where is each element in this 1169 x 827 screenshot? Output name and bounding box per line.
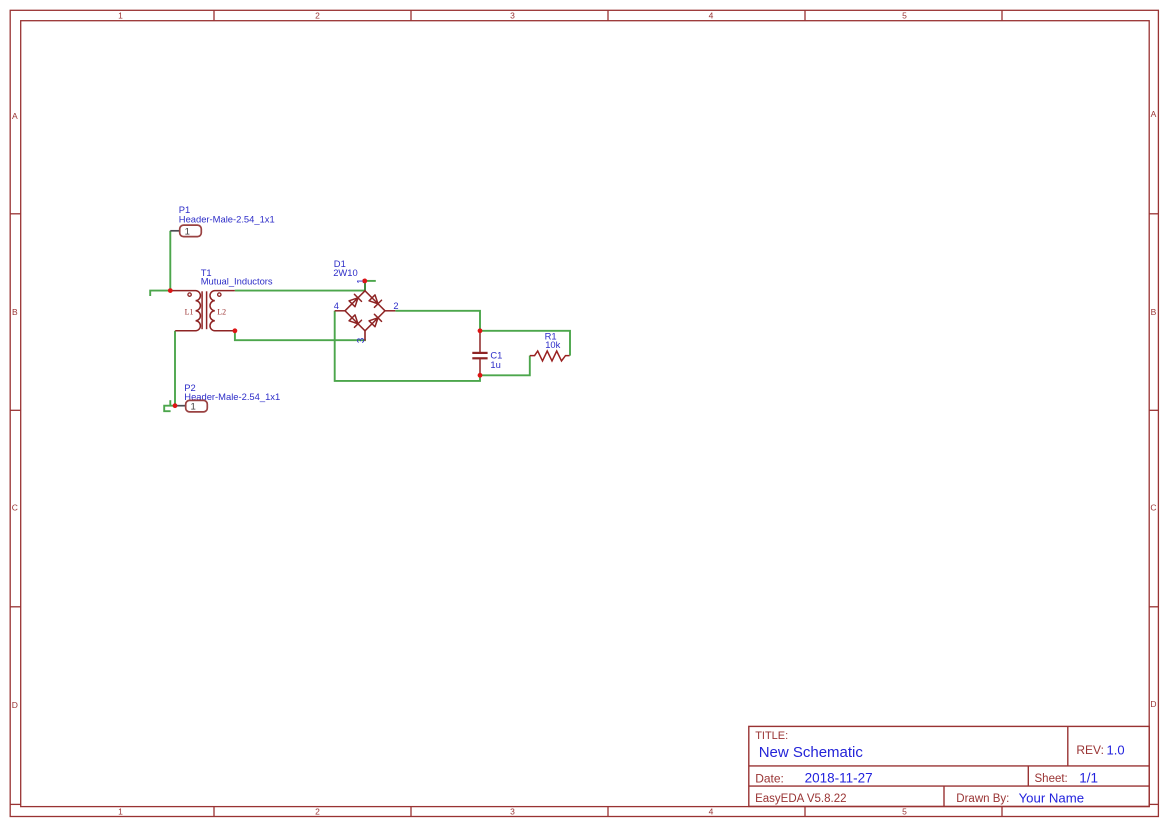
svg-text:REV:: REV: (1076, 743, 1104, 757)
svg-text:3: 3 (356, 337, 367, 343)
svg-text:C: C (12, 503, 18, 513)
core (201, 291, 203, 329)
winding L1 (170, 291, 200, 331)
C1 top pin (479, 331, 481, 352)
svg-text:1.0: 1.0 (1107, 742, 1125, 757)
pin 1 lead of P1 (170, 230, 179, 232)
P1 body (180, 225, 202, 237)
bridge rectifier D1 (333, 258, 398, 343)
svg-text:Date:: Date: (755, 771, 784, 785)
junction at C1 bottom (478, 373, 483, 378)
title block (749, 726, 1149, 806)
svg-text:B: B (1151, 307, 1157, 317)
wire overlapping D1 top pin (364, 281, 366, 291)
wire hooks at P2 (164, 400, 175, 411)
junction at P2 pin 1 (173, 403, 178, 408)
svg-text:2018-11-27: 2018-11-27 (805, 770, 873, 785)
svg-text:L1: L1 (185, 307, 194, 316)
frame column labels (118, 10, 907, 816)
C1 bottom pin (479, 359, 481, 375)
junction at D1 pin 1 (362, 279, 367, 284)
diode bottom-left (349, 315, 361, 327)
resistor R1 (530, 330, 570, 361)
svg-text:5: 5 (902, 806, 907, 816)
P2 body (186, 400, 208, 412)
junction at T1 pin 4 (233, 328, 238, 333)
svg-text:3: 3 (510, 806, 515, 816)
svg-text:L2: L2 (217, 307, 226, 316)
pin 3 lead (364, 331, 366, 341)
svg-text:10k: 10k (545, 339, 560, 350)
svg-text:D: D (1150, 699, 1156, 709)
svg-text:A: A (1151, 109, 1157, 119)
svg-text:Mutual_Inductors: Mutual_Inductors (201, 275, 273, 286)
wire D1 pin2 to C1 top (395, 311, 480, 331)
svg-text:1/1: 1/1 (1079, 770, 1098, 785)
wire C1 bottom to D1 pin4 (335, 311, 480, 381)
svg-text:2: 2 (315, 10, 320, 20)
wire net from P1 to T1 pin1 with open stub (150, 231, 170, 296)
wire T1 bottom-left to P2 (174, 331, 176, 406)
svg-text:D: D (12, 700, 18, 710)
diode top-right (369, 295, 381, 307)
frame row labels (12, 109, 1157, 710)
pin 4 lead (335, 310, 345, 312)
connector P1 (170, 204, 274, 237)
winding L2 (210, 291, 235, 331)
svg-text:C: C (1150, 503, 1156, 513)
diode bottom-right (369, 314, 381, 326)
svg-text:1: 1 (118, 806, 123, 816)
svg-text:Sheet:: Sheet: (1035, 773, 1068, 785)
svg-text:TITLE:: TITLE: (755, 730, 788, 742)
svg-text:B: B (12, 307, 18, 317)
R1 zigzag body (530, 351, 570, 361)
svg-text:4: 4 (334, 301, 339, 311)
svg-text:5: 5 (902, 10, 907, 20)
wire T1 top-right to D1 pin1 (235, 281, 376, 291)
diode top-left (349, 294, 361, 306)
svg-text:4: 4 (709, 10, 714, 20)
connector P2 (175, 382, 280, 413)
pin 1 lead of P2 (175, 405, 186, 407)
svg-text:New Schematic: New Schematic (759, 744, 864, 761)
svg-text:Header-Male-2.54_1x1: Header-Male-2.54_1x1 (179, 214, 275, 225)
svg-text:2W10: 2W10 (333, 267, 358, 278)
wire C1 top to R1 right (480, 331, 570, 356)
svg-text:Your Name: Your Name (1019, 791, 1085, 806)
phase dot L2 (218, 293, 221, 296)
svg-text:EasyEDA V5.8.22: EasyEDA V5.8.22 (755, 793, 846, 805)
svg-text:4: 4 (709, 806, 714, 816)
svg-text:Drawn By:: Drawn By: (956, 793, 1009, 805)
transformer T1 (170, 267, 273, 331)
wire T1 bottom-right to D1 pin3 (235, 331, 366, 340)
svg-text:A: A (12, 111, 18, 121)
wire C1 bottom to R1 left (480, 356, 530, 376)
pin 2 lead (385, 310, 395, 312)
phase dot L1 (188, 293, 191, 296)
svg-text:1: 1 (118, 10, 123, 20)
svg-text:1: 1 (191, 402, 196, 413)
capacitor C1 (472, 331, 502, 376)
svg-text:1u: 1u (490, 359, 500, 370)
junction at T1 pin 1 / P1 net (168, 288, 173, 293)
diamond body (345, 291, 385, 331)
svg-text:1: 1 (185, 226, 190, 237)
junction at C1 top (478, 328, 483, 333)
svg-text:2: 2 (393, 301, 398, 311)
svg-text:3: 3 (510, 10, 515, 20)
C1 plates (472, 352, 487, 354)
svg-text:2: 2 (315, 806, 320, 816)
